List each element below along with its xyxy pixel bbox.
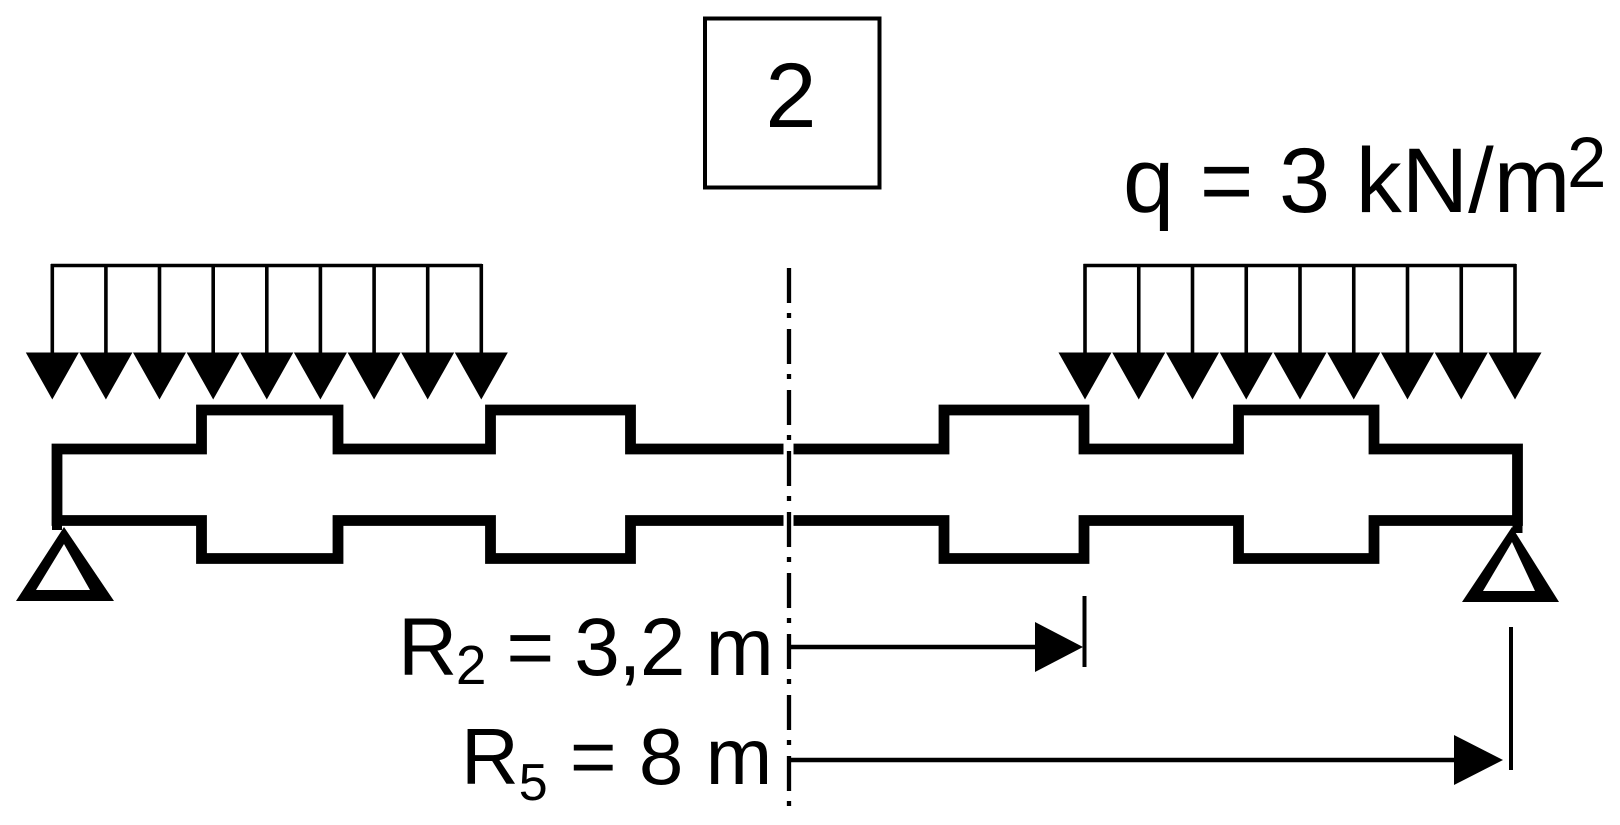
svg-text:2: 2 (765, 45, 816, 147)
svg-text:R5 = 8 m: R5 = 8 m (461, 712, 772, 812)
svg-text:2: 2 (1567, 124, 1607, 203)
svg-text:R2 = 3,2 m: R2 = 3,2 m (398, 602, 772, 696)
svg-text:q = 3 kN/m: q = 3 kN/m (1123, 130, 1570, 232)
